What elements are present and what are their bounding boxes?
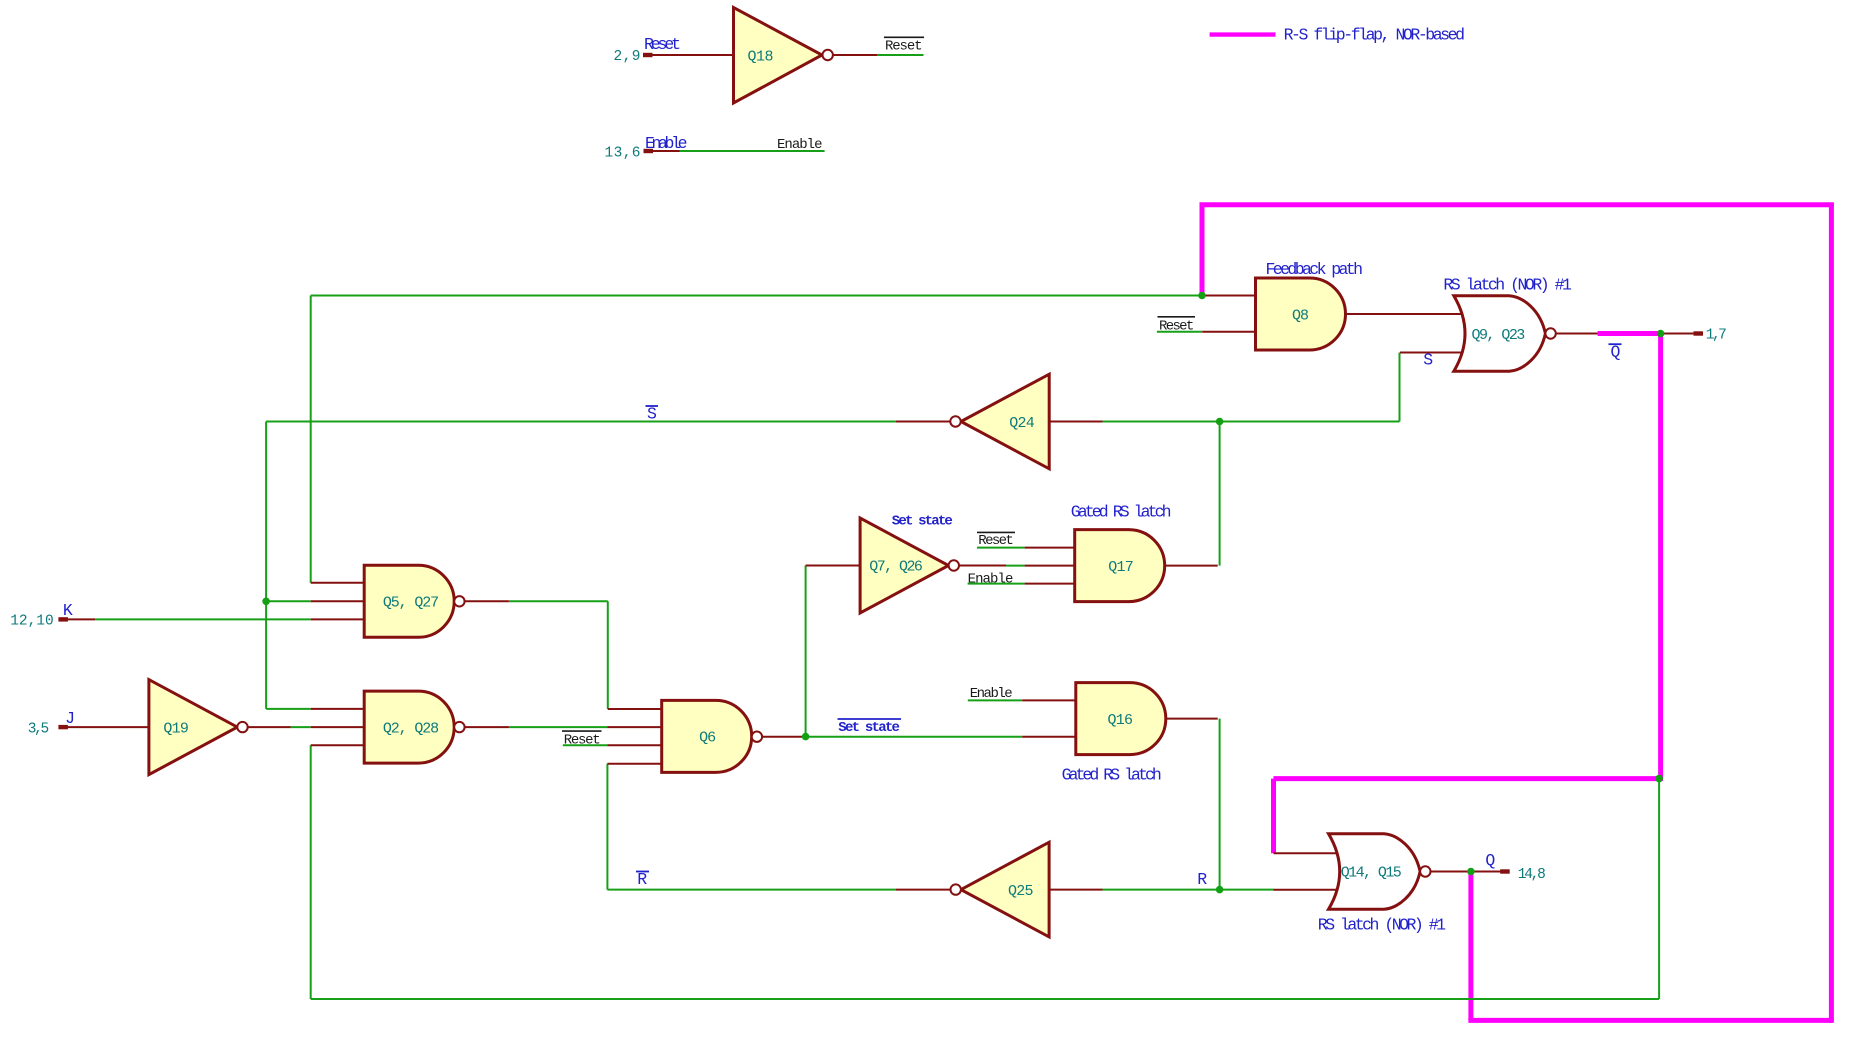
Q14 output trail, stub and numbers 14,8 xyxy=(1471,869,1510,873)
AND gate Q8 (feedback path) xyxy=(1202,278,1465,350)
wire S vertical to Q9 input xyxy=(1399,353,1401,422)
svg-text:Set state: Set state xyxy=(838,720,900,736)
wire Q6 output vertical up to Q7 input xyxy=(805,566,807,737)
junction at Q6 output xyxy=(802,733,810,741)
svg-text:3,5: 3,5 xyxy=(28,721,50,737)
svg-text:J: J xyxy=(65,709,75,728)
wire Q16 output vertical to R node xyxy=(1219,719,1221,890)
svg-text:Q8: Q8 xyxy=(1292,308,1309,325)
svg-text:Reset: Reset xyxy=(885,39,923,55)
wire R node to Q25 input xyxy=(1103,889,1274,891)
svg-text:R: R xyxy=(637,870,647,889)
svg-text:2,9: 2,9 xyxy=(614,49,641,65)
magenta Q-bar segment at Q9 output xyxy=(1598,331,1661,336)
wire vertical bottom row up to Q2,Q28 input 3 xyxy=(310,745,312,999)
svg-text:Q24: Q24 xyxy=(1009,415,1035,432)
svg-text:13,6: 13,6 xyxy=(605,146,641,162)
wire Q2,Q28 output to Q6 input 2 xyxy=(509,726,608,728)
svg-text:Q16: Q16 xyxy=(1108,712,1134,729)
wire bottom Q-bar feedback row xyxy=(311,998,1659,1000)
Enable net stub pin 13,6 xyxy=(644,149,680,153)
NOR gate Q14,Q15 (RS latch #1 lower) xyxy=(1274,834,1471,910)
inverter Q19 (J input) xyxy=(66,680,291,775)
svg-text:RS latch (NOR) #1: RS latch (NOR) #1 xyxy=(1318,916,1446,935)
NOR gate Q9,Q23 (RS latch #1 upper) xyxy=(1400,296,1598,372)
svg-text:14,8: 14,8 xyxy=(1518,867,1546,883)
NAND gate Q2,Q28 xyxy=(311,691,509,763)
label Q-bar (overlined) xyxy=(1609,343,1622,362)
svg-text:R-S flip-flap, NOR-based: R-S flip-flap, NOR-based xyxy=(1284,25,1465,44)
svg-text:Q: Q xyxy=(1611,343,1621,362)
J input pin stub 3,5 xyxy=(58,725,68,729)
wire K input row xyxy=(95,618,311,620)
junction at Q5,Q27 middle input branch xyxy=(262,598,270,606)
svg-text:Q5, Q27: Q5, Q27 xyxy=(383,595,439,612)
junction at R node xyxy=(1216,886,1224,894)
svg-text:Q25: Q25 xyxy=(1008,883,1034,900)
svg-text:Q17: Q17 xyxy=(1108,559,1134,576)
svg-text:Reset: Reset xyxy=(1159,319,1194,335)
inverter Q7,Q26 (set state) xyxy=(806,518,1007,613)
svg-text:Enable: Enable xyxy=(968,572,1014,588)
inverter Q24 (S-bar driver, points left) xyxy=(896,374,1103,469)
wire Q17 output vertical xyxy=(1219,422,1221,566)
label S-bar (overlined) xyxy=(646,405,659,424)
wire Reset underline at Q17 xyxy=(977,547,1025,549)
svg-text:Enable: Enable xyxy=(645,134,688,153)
wire Reset label underline at Q6 xyxy=(563,744,608,746)
label Reset-bar at Q6 (overlined) xyxy=(562,731,602,748)
wire branch to Q5,Q27 middle input xyxy=(266,600,311,602)
legend magenta sample line xyxy=(1210,32,1276,36)
wire Q24 input from S node xyxy=(1103,421,1400,423)
svg-text:Gated RS latch: Gated RS latch xyxy=(1071,503,1172,522)
wire between Q7 output and Q17 middle input xyxy=(1006,565,1025,567)
junction at Q output xyxy=(1467,868,1475,876)
wire vertical Q-bar to bottom row xyxy=(1658,779,1660,999)
junction at S-bar / Q17 output node xyxy=(1216,418,1224,426)
svg-text:Q: Q xyxy=(1485,851,1495,870)
NAND gate Q5,Q27 xyxy=(311,565,509,637)
svg-text:12,10: 12,10 xyxy=(10,614,54,630)
wire Set-state row Q6 to Q16 xyxy=(806,736,1023,738)
inverter Q18 xyxy=(734,8,833,104)
wire Q6 input 4 vertical from R-bar row xyxy=(606,764,608,890)
wire Enable underline at Q17 xyxy=(968,583,1025,585)
Q18 output pin xyxy=(833,54,877,56)
svg-text:Gated RS latch: Gated RS latch xyxy=(1062,766,1162,785)
wire S-bar row xyxy=(266,421,896,423)
inverter Q25 (R-bar driver, points left) xyxy=(896,842,1103,937)
svg-text:S: S xyxy=(647,405,657,424)
wire S-bar vertical xyxy=(265,422,267,709)
wire Enable xyxy=(680,150,825,152)
label Set state-bar at Q6 output (overlined bold) xyxy=(838,719,902,736)
label Reset-bar (overlined) xyxy=(884,37,924,54)
junction at Q-bar output xyxy=(1657,330,1665,338)
wire Q19 output gap xyxy=(291,726,311,728)
svg-text:Q9, Q23: Q9, Q23 xyxy=(1472,327,1526,344)
magenta vertical into Q14 top input xyxy=(1271,779,1276,854)
junction at Q8 top input xyxy=(1198,292,1206,300)
svg-text:K: K xyxy=(63,601,73,620)
svg-text:Enable: Enable xyxy=(970,686,1013,702)
wire R-bar row xyxy=(607,889,896,891)
svg-text:Q14, Q15: Q14, Q15 xyxy=(1341,865,1402,882)
wire Reset to Q8 lower input xyxy=(1157,331,1202,333)
magenta vertical to Q junction xyxy=(1468,872,1473,1021)
highlighted net (magenta) Q feedback: top horizontal xyxy=(1200,202,1834,207)
label R-bar (overlined) xyxy=(636,870,649,889)
svg-text:Q19: Q19 xyxy=(163,720,189,737)
NAND gate Q6 (4-input) xyxy=(607,700,805,772)
wire A: Q feedback row to Q8 xyxy=(311,295,1202,297)
label Reset-bar at Q8 input (overlined) xyxy=(1158,317,1196,335)
svg-text:Q6: Q6 xyxy=(699,730,716,747)
svg-text:Reset: Reset xyxy=(564,732,601,748)
magenta bottom horizontal xyxy=(1468,1018,1831,1023)
svg-text:Reset: Reset xyxy=(978,533,1014,549)
AND gate Q17 (gated RS latch) xyxy=(1025,530,1218,602)
svg-text:Q18: Q18 xyxy=(748,49,774,66)
wire Enable underline at Q16 xyxy=(968,699,1022,701)
junction at Q-bar bottom feedback xyxy=(1655,775,1663,783)
svg-text:RS latch (NOR) #1: RS latch (NOR) #1 xyxy=(1443,276,1572,295)
svg-text:Q7, Q26: Q7, Q26 xyxy=(869,559,923,576)
AND gate Q16 (gated RS latch) xyxy=(1022,683,1217,755)
Q18 pin 2 (input) xyxy=(643,53,734,57)
wire branch to Q2,Q28 top input xyxy=(266,708,311,710)
K input pin stub 12,10 xyxy=(58,617,95,621)
svg-text:R: R xyxy=(1197,870,1207,889)
label Reset-bar at Q17 (overlined) xyxy=(977,532,1015,549)
svg-text:S: S xyxy=(1423,351,1433,370)
svg-text:Enable: Enable xyxy=(777,137,823,153)
svg-text:1,7: 1,7 xyxy=(1706,328,1727,344)
svg-text:Set state: Set state xyxy=(892,513,953,529)
Q9 output trail, pin stub and numbers 1,7 xyxy=(1661,331,1703,335)
magenta vertical into Q8 input junction xyxy=(1200,205,1205,296)
wire vertical down to Q6 input 1 xyxy=(607,601,609,709)
wire Reset-bar output xyxy=(877,54,924,56)
svg-text:Feedback path: Feedback path xyxy=(1266,260,1364,279)
wire A vertical down to Q5,Q27 xyxy=(310,296,312,583)
wire Q5,Q27 output to corner xyxy=(509,600,608,602)
magenta right vertical xyxy=(1829,205,1834,1023)
magenta vertical Q-bar down xyxy=(1658,334,1663,779)
svg-text:Q2, Q28: Q2, Q28 xyxy=(383,720,439,737)
magenta horizontal to Q14 set input xyxy=(1274,776,1664,781)
svg-text:Reset: Reset xyxy=(644,35,681,54)
